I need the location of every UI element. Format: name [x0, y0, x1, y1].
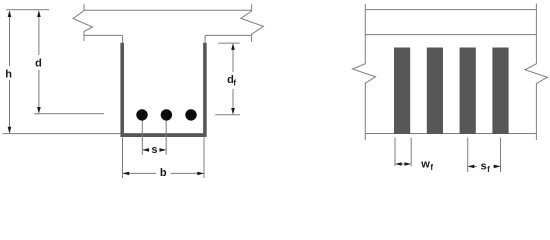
svg-text:w: w [420, 158, 430, 170]
svg-text:f: f [487, 165, 490, 174]
svg-text:s: s [151, 144, 157, 156]
svg-text:f: f [233, 78, 236, 87]
svg-text:f: f [430, 163, 433, 172]
svg-text:b: b [160, 167, 167, 179]
svg-text:d: d [35, 58, 42, 70]
svg-text:s: s [480, 161, 486, 173]
svg-text:h: h [5, 68, 12, 80]
